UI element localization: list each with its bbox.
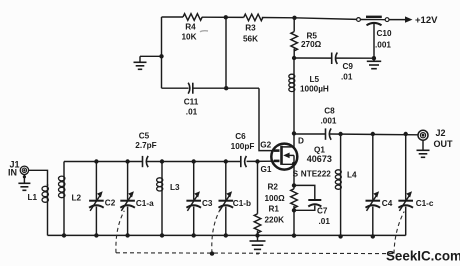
svg-text:SeekIC.com: SeekIC.com xyxy=(386,249,460,264)
node junction C3 top xyxy=(192,159,196,163)
svg-text:L4: L4 xyxy=(347,171,357,180)
node junction L3 bottom xyxy=(160,233,164,237)
svg-text:L1: L1 xyxy=(28,193,38,202)
node junction C4 bottom xyxy=(371,234,375,238)
svg-text:.01: .01 xyxy=(186,108,198,117)
terminal circle left of C10 xyxy=(357,18,361,22)
svg-text:G1: G1 xyxy=(261,165,272,174)
node ground tap on left vertical xyxy=(159,54,163,58)
node junction R2 bottom rail xyxy=(292,233,296,237)
svg-text:C5: C5 xyxy=(139,132,150,141)
wire arrow to +12V xyxy=(389,15,438,26)
stray scan smudge near R4 xyxy=(200,31,208,32)
resistor R5 xyxy=(291,18,322,58)
svg-text:2.7pF: 2.7pF xyxy=(135,141,156,150)
node junction R5 bottom / C9 / L5 xyxy=(292,56,296,60)
inductor L1 xyxy=(28,184,49,235)
svg-text:10K: 10K xyxy=(181,33,196,42)
svg-text:C3: C3 xyxy=(202,199,213,208)
label R1 value column xyxy=(265,204,285,224)
svg-text:C1-b: C1-b xyxy=(233,199,251,208)
feedthrough capacitor C10 xyxy=(366,17,392,58)
node dot on gang line below C1-b xyxy=(210,251,214,255)
svg-text:C9: C9 xyxy=(343,62,354,71)
capacitor C6 xyxy=(231,132,255,167)
transistor Q1 40673 dual-gate MOSFET xyxy=(260,134,332,179)
node junction C9 / C10 ground xyxy=(372,56,376,60)
inductor L5 xyxy=(289,58,329,133)
svg-text:C1-c: C1-c xyxy=(416,199,434,208)
capacitor C11 xyxy=(184,83,199,117)
terminal circle right of C10 xyxy=(385,18,389,22)
svg-text:R1: R1 xyxy=(269,204,280,213)
wire C9 row xyxy=(294,57,374,59)
wire C11 bottom row of feedback loop xyxy=(162,87,260,89)
svg-text:D: D xyxy=(298,137,304,146)
node junction top-left of R4 feedback loop xyxy=(224,15,228,19)
wire to ground top-left xyxy=(140,55,162,57)
svg-text:+12V: +12V xyxy=(415,15,438,26)
svg-text:270Ω: 270Ω xyxy=(301,40,322,49)
svg-text:C4: C4 xyxy=(382,199,393,208)
svg-text:.001: .001 xyxy=(375,41,391,50)
svg-text:C6: C6 xyxy=(235,132,246,141)
ground below C10 xyxy=(367,58,381,68)
node junction C2 bottom xyxy=(94,233,98,237)
node junction drain / L5 / C8 xyxy=(292,131,296,135)
resistor R1 xyxy=(254,162,261,236)
svg-text:C1-a: C1-a xyxy=(136,199,154,208)
wire top rail from left corner to +12V terminal xyxy=(162,17,357,19)
svg-text:L5: L5 xyxy=(310,75,320,84)
svg-text:C2: C2 xyxy=(105,199,116,208)
resistor R3 xyxy=(243,14,263,43)
ground below J1 xyxy=(18,175,30,191)
variable capacitor C1-b xyxy=(219,162,252,236)
node junction L2 bottom xyxy=(62,233,66,237)
wire bottom ground rail xyxy=(48,234,406,236)
svg-text:R3: R3 xyxy=(245,24,256,33)
svg-text:.01: .01 xyxy=(341,73,353,82)
node junction source / R2 / C7 top xyxy=(292,183,296,187)
capacitor C5 xyxy=(135,132,156,168)
svg-text:40673: 40673 xyxy=(307,154,332,164)
inductor L4 xyxy=(335,134,357,235)
svg-text:100pF: 100pF xyxy=(231,142,255,151)
svg-text:J2: J2 xyxy=(436,128,446,138)
dashed gang line C1-a to C1-c xyxy=(116,210,404,253)
wire R2 bottom to ground rail xyxy=(293,206,295,235)
resistor R4 xyxy=(181,14,202,42)
capacitor C9 xyxy=(332,53,354,82)
node junction C1-a bottom xyxy=(125,233,129,237)
svg-text:.01: .01 xyxy=(319,217,331,226)
connector J1 IN xyxy=(8,160,29,178)
node junction C1-a top xyxy=(125,159,129,163)
svg-text:56K: 56K xyxy=(243,34,258,43)
svg-text:C10: C10 xyxy=(377,29,392,38)
variable capacitor C1-a xyxy=(120,162,154,236)
wire left vertical of feedback loop xyxy=(161,17,163,88)
svg-text:1000µH: 1000µH xyxy=(300,85,329,94)
svg-text:IN: IN xyxy=(8,168,17,178)
node junction R1 bottom / ground xyxy=(255,233,259,237)
variable capacitor C1-c xyxy=(398,134,433,235)
svg-text:C7: C7 xyxy=(317,207,328,216)
node junction C2 top xyxy=(94,159,98,163)
svg-text:R2: R2 xyxy=(268,183,279,192)
wire source lead down xyxy=(293,170,295,189)
variable capacitor C2 xyxy=(89,162,116,236)
svg-text:C8: C8 xyxy=(324,107,335,116)
node junction R1 top xyxy=(255,159,259,163)
ground main below R1 xyxy=(250,235,266,253)
ground top-left xyxy=(134,56,147,69)
node junction C1-b bottom xyxy=(224,233,228,237)
svg-text:NTE222: NTE222 xyxy=(301,170,331,179)
svg-text:100Ω: 100Ω xyxy=(265,194,286,203)
variable capacitor C3 xyxy=(186,162,213,236)
wire drain row to J2 xyxy=(294,133,418,136)
ground below J2 xyxy=(417,140,430,157)
node junction C4 top xyxy=(371,132,375,136)
resistor R2 xyxy=(265,183,298,209)
node junction R2 / C7 bottom xyxy=(292,208,296,212)
svg-text:C11: C11 xyxy=(184,98,199,107)
node junction L3 top xyxy=(160,159,164,163)
svg-text:R4: R4 xyxy=(185,23,196,32)
svg-text:L2: L2 xyxy=(72,194,82,203)
node junction top of R5 xyxy=(292,16,296,20)
wire from C11 row down to gate G2 xyxy=(259,88,275,150)
capacitor C8 xyxy=(321,107,337,140)
wire vertical joining top rail to C11 row xyxy=(225,17,227,88)
inductor L3 xyxy=(157,162,180,236)
node junction C3 bottom xyxy=(192,233,196,237)
connector J2 OUT xyxy=(418,128,453,149)
capacitor C7 with branch wires xyxy=(294,185,330,226)
svg-text:OUT: OUT xyxy=(434,139,454,149)
node junction L4 top xyxy=(338,132,342,136)
node junction L4 bottom xyxy=(338,234,342,238)
node junction C11 right xyxy=(224,86,228,90)
svg-text:L3: L3 xyxy=(170,183,180,192)
wire J1 to L1 xyxy=(29,170,48,186)
wire between C10 terminals xyxy=(361,19,386,21)
svg-text:220K: 220K xyxy=(265,215,285,224)
node junction C1-b top xyxy=(224,159,228,163)
wire tank top row xyxy=(64,160,275,162)
node junction C1-c top xyxy=(404,132,408,136)
inductor L2 xyxy=(59,162,82,236)
variable capacitor C4 xyxy=(366,134,393,235)
svg-text:.001: .001 xyxy=(321,116,337,125)
svg-text:G2: G2 xyxy=(260,141,271,150)
